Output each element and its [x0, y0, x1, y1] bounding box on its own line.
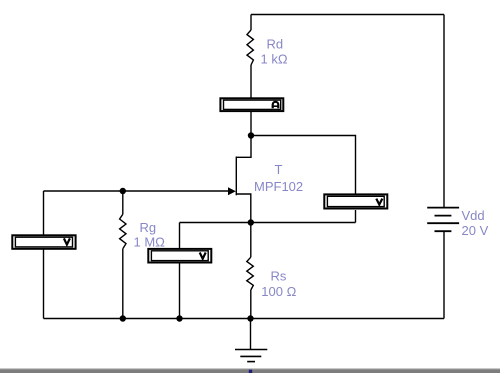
battery Vdd long plate 1 [427, 207, 459, 209]
voltmeter U-V3 inner box [327, 196, 384, 206]
node middle voltmeter bottom junction [176, 315, 182, 321]
svg-text:100 Ω: 100 Ω [261, 284, 296, 299]
node gate junction at Rg top [120, 188, 126, 194]
battery Vdd short plate 1 [435, 215, 452, 217]
svg-text:T: T [275, 162, 283, 177]
ammeter U-A outer box [220, 98, 283, 111]
ground bar 2 [240, 355, 261, 357]
wire Rd top lead [250, 15, 252, 31]
window bottom scrollbar gray bar [0, 369, 500, 373]
node Rg bottom junction [120, 315, 126, 321]
voltmeter U-V2 middle outer box [148, 249, 211, 263]
voltmeter U-V1 inner box [15, 237, 72, 247]
battery Vdd long plate 2 [427, 222, 459, 224]
svg-text:Rs: Rs [271, 269, 287, 284]
window bottom scrollbar light edge [0, 368, 500, 369]
transistor Q1 source lead [236, 194, 251, 223]
resistor Rg [120, 214, 126, 248]
resistor Rs [247, 257, 254, 290]
wire Rg bottom lead [122, 249, 124, 319]
voltmeter U-V3 right outer box [324, 194, 387, 208]
wire Rg top lead [122, 191, 124, 214]
svg-text:MPF102: MPF102 [254, 179, 303, 194]
wire Rd bottom lead to ammeter [250, 65, 252, 98]
wire middle voltmeter riser [179, 223, 181, 249]
node drain junction [248, 132, 254, 138]
node ground junction on bottom rail [247, 315, 253, 321]
wire Rs top lead [250, 223, 252, 258]
transistor Q1 channel bar [235, 157, 237, 196]
transistor Q1 drain lead [236, 136, 251, 158]
wire left riser bottom (left voltmeter to bottom rail) [43, 250, 45, 319]
transistor Q1 gate arrow [228, 187, 236, 195]
wire gate horizontal run [44, 190, 230, 192]
svg-text:1 MΩ: 1 MΩ [134, 235, 166, 250]
wire bottom rail [44, 318, 445, 320]
voltmeter U-V2 letter V [200, 253, 206, 259]
wire battery bottom to bottom rail [443, 232, 445, 319]
voltmeter U-V1 letter V [64, 238, 70, 244]
wire right rail down to battery top [443, 15, 445, 208]
wire ammeter bottom lead to drain node [250, 112, 252, 136]
voltmeter U-V1 left outer box [12, 235, 75, 249]
voltmeter U-V2 inner box [151, 251, 208, 261]
wire right voltmeter bottom riser [355, 210, 357, 223]
node source junction [248, 219, 254, 225]
scrollbar navy marker [249, 370, 252, 373]
svg-text:Rd: Rd [267, 37, 284, 52]
svg-text:20 V: 20 V [462, 223, 489, 238]
wire top rail from Rd top to Vdd branch [251, 14, 444, 16]
svg-text:Rg: Rg [140, 220, 157, 235]
ammeter letter A [273, 102, 279, 108]
svg-text:1 kΩ: 1 kΩ [261, 52, 288, 67]
wire left riser top (gate wire corner down to left voltmeter) [43, 191, 45, 235]
wire middle voltmeter bottom lead [179, 263, 181, 319]
battery Vdd short plate 2 [435, 230, 452, 232]
wire source node horizontal run [180, 222, 356, 224]
ground bar 3 [247, 361, 255, 363]
ground stem [250, 319, 252, 350]
wire Rs bottom lead [250, 290, 252, 319]
wire drain node to right voltmeter top [251, 136, 356, 194]
svg-text:Vdd: Vdd [462, 208, 485, 223]
ground bar 1 [235, 349, 267, 351]
voltmeter U-V3 letter V [376, 199, 382, 205]
resistor Rd [247, 30, 253, 65]
ammeter inner box [224, 100, 281, 109]
